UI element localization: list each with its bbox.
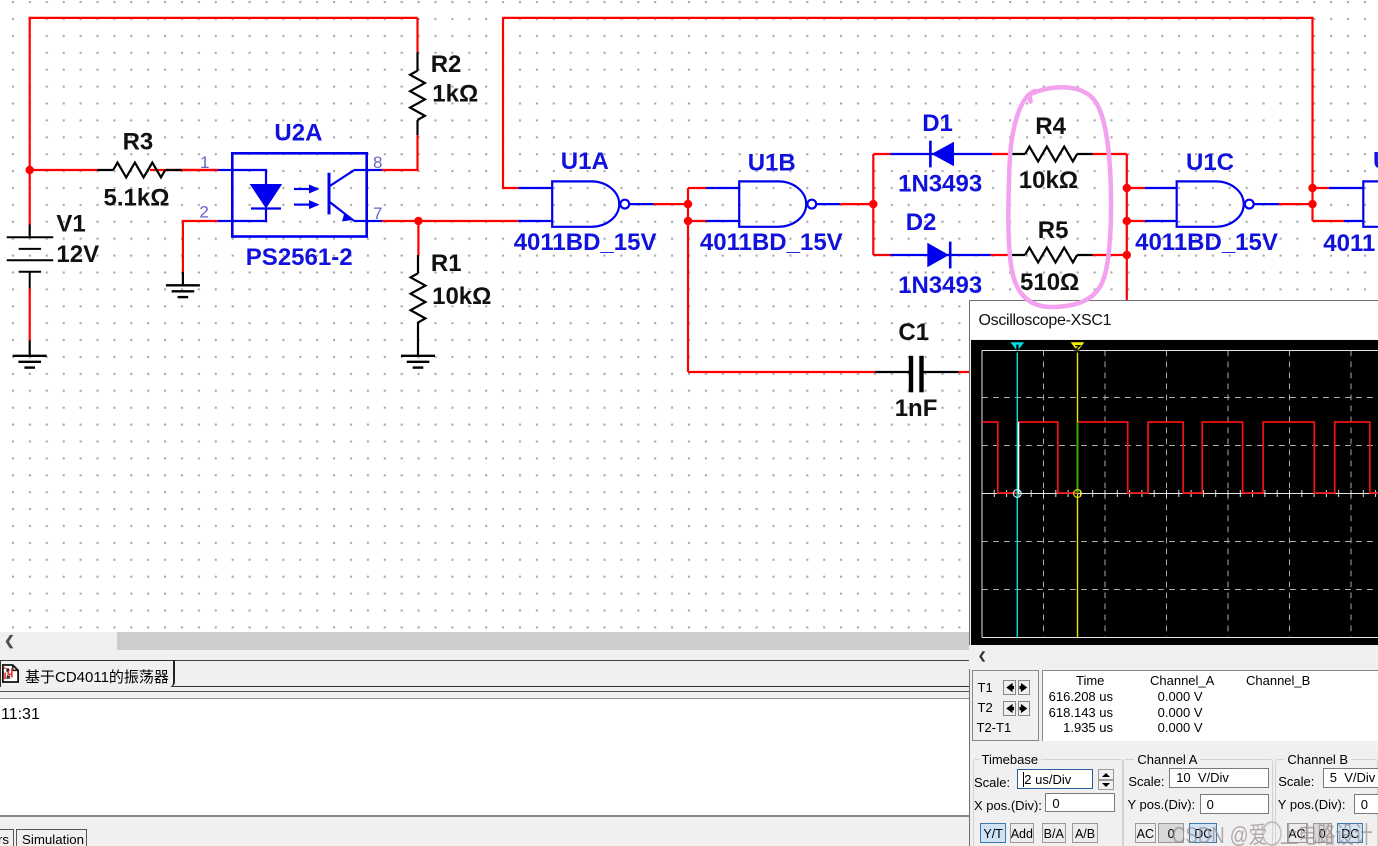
scope values box [1042, 670, 1378, 742]
document tab text [25, 666, 169, 687]
x position input [1045, 793, 1115, 811]
resistor R1 10k [411, 250, 492, 323]
scope graticule frame [982, 351, 1378, 638]
wire pin2 stub [218, 220, 233, 222]
scope grid dashed [982, 351, 1378, 638]
wire V1 top black lead [29, 225, 31, 237]
op-amp U1C NAND gate [1135, 149, 1278, 256]
wire left vertical V1+ rail [29, 17, 31, 225]
wire pin7 to U1A input B [382, 220, 518, 222]
wire U1B output to diode node [840, 203, 873, 205]
wire C1 right red [959, 371, 972, 373]
resistor R5 510 [1020, 217, 1079, 296]
battery V1 12V [7, 210, 99, 288]
wire feedback vertical right [1311, 17, 1313, 221]
channel A buttons [1135, 823, 1156, 843]
wire U1D input B red [1313, 220, 1345, 222]
ground G3 (R1) [401, 356, 435, 368]
wire R2 black leads [416, 52, 418, 135]
wire R4 black leads [1010, 153, 1093, 155]
op-amp U1A NAND gate [514, 148, 657, 256]
ground G1 (opto pin2) [166, 285, 200, 297]
scope title bar [970, 301, 1378, 339]
CSDN watermark [1172, 816, 1373, 846]
wire C1 right black lead [924, 371, 959, 373]
bottom bar [0, 815, 1378, 846]
junction node U1A out [684, 200, 692, 208]
wire D1 to R4 red [992, 153, 1010, 155]
wire U1D input B stub [1344, 220, 1363, 222]
wire pin8 stub [367, 169, 383, 171]
wire U1D input A red [1313, 187, 1329, 189]
document tab icon [2, 663, 19, 684]
wire D2 row blue [891, 254, 991, 256]
diode D1 1N3493 [898, 110, 982, 198]
wire U1B input B red [688, 220, 706, 222]
wire U1C input A red [1127, 187, 1145, 189]
junction node U1C out [1308, 200, 1316, 208]
wire U1B input stubs [706, 188, 739, 221]
wire U1C input B red [1127, 220, 1145, 222]
wire R3 black leads [97, 169, 182, 171]
wire R5 black leads [1010, 254, 1093, 256]
wire U1C output stub [1253, 203, 1279, 205]
channel A y pos input [1200, 794, 1269, 814]
scope cursor readout box [972, 670, 1039, 742]
blank document area [0, 699, 968, 815]
channel B buttons [1287, 823, 1308, 843]
Channel A group [1123, 759, 1273, 846]
clock text [1, 706, 40, 724]
wire pin2 to ground [183, 221, 218, 272]
wire U1A output stub [629, 203, 654, 205]
junction node pin7/R1 [414, 217, 422, 225]
wire R2 top lead red [416, 18, 418, 52]
wire R5 to bus [1093, 254, 1127, 256]
horizontal scrollbar [0, 632, 1378, 650]
junction node V1/R3 [26, 166, 34, 174]
wire R1 black leads [417, 255, 419, 355]
wire feedback vertical to U1A input A [503, 17, 518, 188]
wire R3 to opto pin1 [150, 169, 218, 171]
wire D1 row left red [873, 153, 890, 155]
scope cursor T1 [1010, 342, 1024, 637]
wire U1A input stubs [518, 188, 552, 221]
wire U1C output to feedback [1279, 203, 1313, 205]
oscilloscope window XSC1 [969, 300, 1378, 846]
timebase buttons [980, 823, 1006, 843]
junction node bus R5 [1123, 251, 1131, 259]
wire C1 left black lead [875, 371, 909, 373]
wire pin1 stub [218, 169, 233, 171]
wire V1 ground lead [29, 341, 31, 356]
wire U1D input A stub [1329, 187, 1364, 189]
wire R3 right red [182, 169, 218, 171]
wire R1 top red [417, 221, 419, 255]
wire V1 bottom red [29, 288, 31, 340]
wire D1 row blue [891, 153, 993, 155]
wire pin2 ground lead [182, 272, 184, 285]
wire right bus vertical [1126, 154, 1128, 300]
wire U1B output stub [816, 203, 841, 205]
channel B y pos input [1354, 794, 1378, 814]
wire pin7 stub [367, 220, 383, 222]
scope waveform channel A [982, 422, 1378, 493]
scope axis [982, 490, 1378, 497]
op-amp U2A optocoupler PS2561-2 [199, 119, 382, 271]
timebase scale input [1017, 769, 1093, 789]
wire U1A output to node [654, 203, 688, 205]
junction node bus B [1123, 217, 1131, 225]
junction node U1B out [869, 200, 877, 208]
capacitor C1 1nF [895, 319, 938, 422]
wire R3 row left segment [29, 169, 98, 171]
wire diode branch vertical [872, 154, 874, 255]
channel A scale input [1169, 768, 1269, 789]
Channel B group [1275, 759, 1378, 846]
T2 arrow buttons [1003, 701, 1016, 716]
junction node bus A [1123, 184, 1131, 192]
timebase spinner [1098, 769, 1114, 791]
junction node U1B inB [684, 217, 692, 225]
wire pin8 to R2 bottom [382, 135, 417, 170]
wire D2 to R5 red [991, 254, 1010, 256]
scope cursor T2 [1071, 342, 1085, 637]
scope scroll row [969, 645, 1378, 669]
diode D2 1N3493 [898, 209, 982, 299]
wire R4 to bus [1093, 153, 1127, 155]
resistor R4 10k [1019, 113, 1078, 194]
tab bar [0, 650, 1378, 700]
resistor R2 1k [410, 51, 478, 120]
wire U1B input A red [688, 187, 706, 189]
wire C1 row red [688, 371, 875, 373]
T1 arrow buttons [1003, 680, 1016, 695]
op-amp U1B NAND gate [700, 150, 843, 256]
wire U1C input stubs [1145, 188, 1177, 221]
wire top feedback long [503, 17, 1313, 19]
Timebase group [973, 759, 1123, 846]
wire node vertical U1A-U1B [687, 188, 689, 372]
wire D2 row left red [873, 254, 890, 256]
channel B scale input [1323, 768, 1378, 789]
wire top-left net V1+ to R2 [30, 17, 418, 19]
resistor R3 5.1k [104, 129, 170, 212]
ground G2 (V1) [13, 356, 47, 368]
scope display [971, 340, 1378, 645]
op-amp U1D NAND gate (partial) [1323, 148, 1378, 258]
junction node U1D inA [1308, 184, 1316, 192]
